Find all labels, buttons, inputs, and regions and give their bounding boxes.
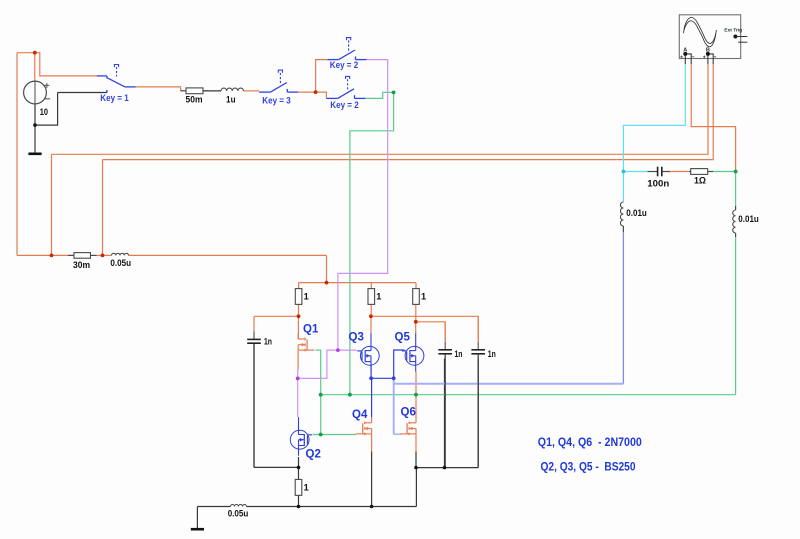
svg-text:1n: 1n xyxy=(264,337,272,347)
svg-text:Key = 2: Key = 2 xyxy=(330,60,359,70)
svg-text:Q1: Q1 xyxy=(303,324,319,336)
svg-text:Ext Trig: Ext Trig xyxy=(724,28,742,34)
svg-text:1Ω: 1Ω xyxy=(694,176,706,186)
svg-text:Q3: Q3 xyxy=(349,332,364,344)
svg-text:0.05u: 0.05u xyxy=(110,258,131,268)
svg-text:0.01u: 0.01u xyxy=(738,214,759,224)
svg-text:+: + xyxy=(44,81,50,92)
svg-text:100n: 100n xyxy=(647,179,669,189)
svg-text:−: − xyxy=(44,94,50,106)
svg-text:Q2, Q3, Q5 - BS250: Q2, Q3, Q5 - BS250 xyxy=(541,460,636,474)
svg-text:1: 1 xyxy=(421,292,426,302)
svg-text:0.05u: 0.05u xyxy=(228,509,249,519)
svg-text:1u: 1u xyxy=(226,95,236,105)
svg-text:Key = 3: Key = 3 xyxy=(262,96,291,106)
svg-text:10: 10 xyxy=(40,107,48,117)
svg-text:0.01u: 0.01u xyxy=(626,208,647,218)
svg-text:50m: 50m xyxy=(186,95,203,105)
svg-text:Key = 1: Key = 1 xyxy=(100,93,129,103)
svg-text:Key = 2: Key = 2 xyxy=(330,100,359,110)
svg-text:Q6: Q6 xyxy=(401,407,416,419)
svg-text:30m: 30m xyxy=(73,260,90,270)
svg-text:Q2: Q2 xyxy=(306,449,321,461)
svg-text:Q1, Q4, Q6 - 2N7000: Q1, Q4, Q6 - 2N7000 xyxy=(538,435,642,449)
svg-text:1: 1 xyxy=(376,292,381,302)
svg-text:1: 1 xyxy=(304,483,309,493)
svg-text:1n: 1n xyxy=(488,349,496,359)
svg-text:1: 1 xyxy=(304,292,309,302)
svg-text:Q4: Q4 xyxy=(352,409,368,421)
svg-text:Q5: Q5 xyxy=(395,332,411,344)
svg-text:1n: 1n xyxy=(455,349,463,359)
